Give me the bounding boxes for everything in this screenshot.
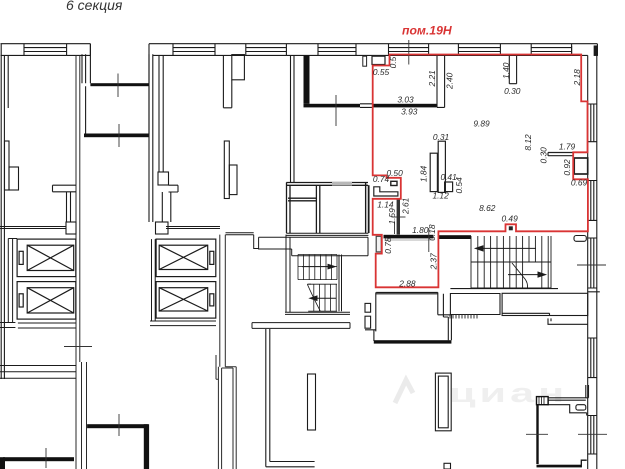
- elevator lobby north line: [0, 227, 220, 229]
- bottom-right room: [537, 385, 589, 416]
- svg-text:2.21: 2.21: [427, 70, 437, 87]
- svg-text:0.30: 0.30: [504, 86, 521, 96]
- left apartment F-wall: [5, 141, 19, 190]
- wall end cap L: [66, 222, 76, 234]
- left apartment wall (x76-80): [76, 55, 87, 469]
- svg-text:1.59: 1.59: [387, 208, 397, 225]
- wall between corridor and room19 x365-369: [366, 183, 369, 234]
- thick wall stair top-left: [439, 235, 472, 239]
- svg-text:6 секция: 6 секция: [66, 0, 123, 13]
- thick wall y104: [304, 104, 361, 108]
- thick wall under 1.80: [384, 235, 434, 239]
- svg-text:0.18: 0.18: [427, 224, 437, 241]
- svg-text:0.54: 0.54: [454, 177, 464, 194]
- boxes below main stair: [450, 289, 587, 325]
- svg-text:1.79: 1.79: [559, 142, 576, 152]
- walls below elevators: [0, 321, 216, 328]
- main stair: [471, 236, 551, 288]
- middle apartment closet: [158, 172, 178, 222]
- room19 left wall black x397-400: [397, 199, 400, 235]
- main stair arrows: [476, 246, 546, 277]
- right window w-r5: [588, 416, 597, 455]
- window W3: [246, 44, 287, 56]
- window W4: [318, 44, 356, 56]
- svg-text:0.69: 0.69: [571, 178, 588, 188]
- window W5: [389, 44, 429, 56]
- recess jambs: [82, 54, 153, 86]
- right window w-r2: [588, 181, 597, 221]
- svg-text:9.89: 9.89: [473, 119, 490, 129]
- svg-text:2.37: 2.37: [428, 253, 438, 271]
- window bar 0.78: [376, 236, 381, 252]
- small rect 0.50: [391, 181, 397, 185]
- svg-text:0.50: 0.50: [386, 168, 403, 178]
- window W1: [24, 44, 67, 56]
- entrance vestibule box: [86, 86, 149, 134]
- svg-text:0.30: 0.30: [539, 147, 549, 164]
- svg-text:пом.19Н: пом.19Н: [402, 24, 453, 38]
- top wall band A: [1, 44, 91, 56]
- left outer wall: [1, 44, 8, 379]
- stairwell bottom walls: [252, 312, 350, 328]
- pillar right-bottom (double): [435, 373, 451, 431]
- window W6: [458, 44, 500, 56]
- landing channel: [226, 233, 369, 256]
- bottom right small rect: [444, 463, 451, 469]
- pillar mid-bottom: [308, 374, 316, 430]
- thick wall pillar x304-309: [304, 55, 310, 103]
- bottom thick wall x87-148: [87, 424, 148, 428]
- svg-text:8.12: 8.12: [523, 134, 533, 151]
- stairwell1 treads lower: [307, 284, 337, 311]
- right window w-r1: [588, 104, 597, 142]
- svg-text:3.93: 3.93: [401, 106, 418, 116]
- stub wall 1.79: [548, 153, 573, 156]
- pillar 0.31/1.84: [430, 141, 452, 192]
- elevator block L shaft1: [17, 239, 76, 277]
- window W7: [531, 44, 571, 56]
- stairwell1 walls: [286, 235, 342, 313]
- svg-text:1.84: 1.84: [418, 166, 428, 183]
- stairwell1 treads upper: [298, 255, 337, 280]
- dimensions: [373, 56, 588, 288]
- wall end cap R: [156, 222, 169, 234]
- window W2: [173, 44, 215, 56]
- b-pillar: [224, 141, 237, 199]
- svg-text:8.62: 8.62: [479, 203, 496, 213]
- thick wall y104 room19: [373, 104, 437, 108]
- corridor wall x220-225: [216, 235, 236, 469]
- stub wall 1.40: [509, 55, 516, 83]
- elevator block R shaft4: [156, 282, 216, 319]
- svg-text:2.88: 2.88: [398, 278, 416, 288]
- right outer wall: [588, 46, 600, 469]
- bottom-right room bold left wall: [536, 400, 538, 464]
- thin bar left of it: [363, 56, 367, 66]
- shaft square 0.92: [574, 158, 588, 174]
- svg-text:0.31: 0.31: [433, 132, 449, 142]
- bottom-left thick wall: [3, 457, 74, 461]
- bottom-right room thick bottom: [537, 465, 582, 468]
- svg-text:1.14: 1.14: [377, 199, 394, 209]
- lobby left wall: [291, 55, 295, 182]
- corridor rooms: [287, 183, 369, 234]
- L-shape in notch 0.74: [374, 187, 398, 196]
- svg-text:2.40: 2.40: [445, 72, 455, 90]
- corridor top wall y182-185: [286, 183, 368, 186]
- door opening gray: [332, 182, 352, 186]
- svg-text:2.61: 2.61: [401, 198, 411, 215]
- wall slot near stair: [574, 236, 586, 242]
- room below 2.88: [365, 292, 451, 341]
- small rect near 0.55: [372, 56, 385, 64]
- bottom middle elbow wall: [266, 329, 315, 467]
- svg-text:0.78: 0.78: [383, 237, 393, 254]
- bottom-right room window box: [537, 397, 549, 405]
- middle apartment walls: [149, 55, 163, 222]
- elevator block L shaft2: [17, 282, 76, 320]
- recess lintel: [90, 83, 149, 86]
- light-well wall left of block R: [152, 239, 156, 321]
- svg-text:0.92: 0.92: [562, 159, 572, 176]
- red room outline: [373, 55, 588, 288]
- top wall recess: [90, 44, 149, 83]
- red square marker inner: [509, 226, 513, 230]
- stairwell1 arrows: [302, 264, 336, 300]
- svg-text:0.5: 0.5: [388, 56, 398, 68]
- hatch strip below box1: [450, 315, 477, 319]
- T-wall top middle: [223, 55, 244, 108]
- svg-text:циан: циан: [449, 377, 568, 408]
- svg-text:3.03: 3.03: [397, 95, 414, 105]
- svg-text:1.40: 1.40: [501, 62, 511, 79]
- left apartment stub wall: [53, 185, 77, 222]
- elevator block R shaft3: [156, 239, 216, 277]
- svg-text:0.49: 0.49: [501, 214, 518, 224]
- svg-text:1.12: 1.12: [432, 191, 449, 201]
- watermark logo: [395, 380, 413, 403]
- bottom-left double wall: [0, 366, 76, 379]
- svg-text:2.18: 2.18: [572, 69, 582, 87]
- top wall band B: [149, 44, 597, 56]
- light-well wall left of block L: [8, 239, 17, 323]
- right window w-r3: [588, 238, 600, 292]
- right window w-r4: [588, 338, 597, 378]
- svg-text:0.55: 0.55: [373, 67, 390, 77]
- vestibule bottom thick wall: [84, 134, 149, 138]
- wall 2.40 x437-445: [437, 55, 445, 107]
